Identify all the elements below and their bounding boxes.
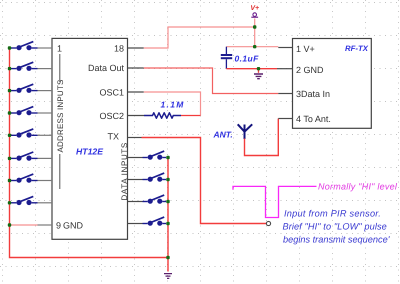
wire: data input bus down to ground	[167, 158, 169, 272]
wire: OSC1 loop to resistor	[128, 92, 201, 116]
ANT. label	[213, 130, 233, 140]
switch S12 (data input)	[128, 217, 167, 226]
svg-text:1.1M: 1.1M	[161, 100, 185, 110]
svg-text:TX: TX	[107, 132, 119, 142]
RF module U2 RF-TX box	[293, 39, 372, 129]
switch S7 (address input)	[11, 174, 52, 183]
U2 pin 3 Data In label	[296, 89, 330, 99]
switch S1 (address input)	[11, 42, 52, 51]
annotation: Normally HI level	[318, 182, 398, 192]
junction on data bus row 2	[166, 178, 169, 181]
wire: pin9 GND to left bus	[10, 224, 53, 226]
svg-text:Input from PIR sensor.: Input from PIR sensor.	[284, 209, 381, 219]
U1 value label HT12E	[76, 147, 104, 157]
U1 pin TX label	[107, 132, 119, 142]
svg-text:0.1uF: 0.1uF	[235, 54, 260, 64]
U2 pin 1 V+ label	[296, 44, 315, 54]
switch S2 (address input)	[11, 62, 52, 71]
wire: cap bottom to RF pin2 GND	[226, 68, 292, 70]
open terminal circle on TX line	[266, 221, 270, 225]
switch S9 (data input)	[128, 151, 167, 160]
svg-text:V+: V+	[250, 5, 259, 12]
junction on left bus row 8	[8, 201, 11, 204]
U1 ADDRESS INPUTS group label	[56, 54, 65, 189]
wire: antenna to RF pin4 To Ant	[245, 119, 293, 156]
junction gnd rail	[257, 67, 260, 70]
ground at RF pin2	[254, 69, 263, 79]
junction pin9 gnd tap	[8, 223, 11, 226]
U2 pin 4 To Ant. label	[296, 114, 331, 124]
U1 pin 18 label	[114, 44, 124, 54]
svg-text:18: 18	[114, 44, 124, 54]
wire: TX output to pulse input node	[128, 138, 267, 224]
junction on left bus row 3	[8, 89, 11, 92]
switch S8 (address input)	[11, 196, 52, 205]
junction on data bus row 3	[166, 200, 169, 203]
power terminal V+	[250, 5, 259, 47]
svg-text:ANT.: ANT.	[213, 130, 233, 140]
switch S11 (data input)	[128, 195, 167, 204]
svg-text:1: 1	[57, 44, 62, 54]
pulse waveform	[233, 186, 317, 217]
wire: pin18 to V+ node	[128, 27, 255, 48]
wire: left address bus and bottom run to ground node	[10, 48, 169, 258]
resistor R1 1.1M on OSC2	[128, 113, 182, 118]
junction on left bus row 6	[8, 157, 11, 160]
svg-text:OSC2: OSC2	[99, 111, 124, 121]
svg-text:Normally "HI" level: Normally "HI" level	[318, 182, 398, 192]
switch S5 (address input)	[11, 129, 52, 138]
junction V+ feed	[253, 25, 256, 28]
switch S6 (address input)	[11, 152, 52, 161]
svg-text:RF-TX: RF-TX	[345, 44, 369, 53]
IC U1 HT12E box	[52, 38, 128, 239]
svg-text:GND: GND	[63, 220, 84, 230]
junction on data bus row 1	[166, 156, 169, 159]
U1 pin 1 label	[57, 44, 62, 54]
C1 value 0.1uF	[235, 54, 260, 64]
svg-text:4 To Ant.: 4 To Ant.	[296, 114, 331, 124]
switch S10 (data input)	[128, 173, 167, 182]
svg-text:begins transmit sequence': begins transmit sequence'	[283, 234, 391, 244]
ground at bottom data bus	[164, 274, 172, 279]
svg-text:ADDRESS INPUTS: ADDRESS INPUTS	[56, 79, 65, 152]
U1 DATA INPUTS group label	[120, 142, 129, 200]
wire: Data Out to RF pin3 Data In	[128, 68, 293, 94]
svg-text:OSC1: OSC1	[99, 88, 124, 98]
U1 pin 9 GND label	[56, 220, 84, 230]
antenna ANT	[238, 124, 253, 139]
junction on left bus row 2	[8, 67, 11, 70]
switch S4 (address input)	[11, 107, 52, 116]
svg-text:3Data In: 3Data In	[296, 89, 330, 99]
svg-text:Brief "HI" to "LOW" pulse: Brief "HI" to "LOW" pulse	[283, 221, 387, 231]
svg-text:DATA INPUTS: DATA INPUTS	[120, 142, 129, 200]
junction bottom ground node	[166, 256, 169, 259]
U2 value label RF-TX	[345, 44, 369, 53]
svg-text:2 GND: 2 GND	[296, 65, 324, 75]
U1 pin OSC2 label	[99, 111, 124, 121]
U1 pin Data Out label	[88, 63, 125, 73]
switch S3 (address input)	[11, 84, 52, 93]
svg-text:9: 9	[56, 220, 61, 230]
junction on left bus row 4	[8, 111, 11, 114]
junction on left bus row 7	[8, 179, 11, 182]
wire: V+ node to RF pin1 (cap top rail)	[226, 46, 292, 49]
junction V+ rail	[253, 45, 256, 48]
svg-text:HT12E: HT12E	[76, 147, 104, 157]
capacitor C1 0.1uF	[221, 47, 232, 69]
svg-text:1 V+: 1 V+	[296, 44, 315, 54]
junction on data bus row 4	[166, 222, 169, 225]
junction on left bus row 5	[8, 134, 11, 137]
svg-text:Data Out: Data Out	[88, 63, 125, 73]
annotation: PIR input lines	[283, 209, 391, 245]
R1 value 1.1M	[161, 100, 185, 110]
U1 pin OSC1 label	[99, 88, 124, 98]
U2 pin 2 GND label	[296, 65, 324, 75]
junction on left bus row 1	[8, 46, 11, 49]
